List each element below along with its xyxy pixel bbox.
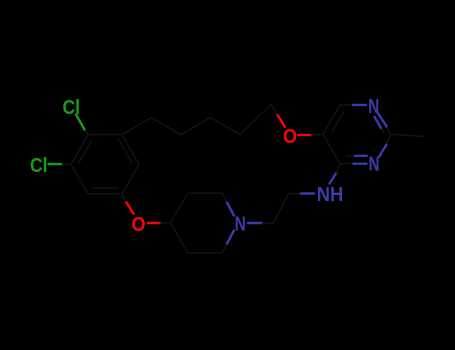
wire pyrimidine edge C2-N3 dark half xyxy=(386,134,391,145)
amine NH bond to CH2b (blue half) xyxy=(301,192,314,194)
svg-text:N: N xyxy=(235,214,246,236)
ether O1 bond to benzene F (red half) xyxy=(127,203,134,214)
wire chain bond P2-V2 xyxy=(211,118,241,135)
wire pyrimidine edge N1-C2 dark half xyxy=(387,126,392,134)
wire pyrimidine edge C4-C5 xyxy=(323,134,340,163)
ether O2 bond to chain P3 (red half) xyxy=(278,115,286,127)
chlorine Cl1 bond (dark half toward ring C) xyxy=(85,130,89,135)
amine N piperidine bond to C2' (blue half) xyxy=(227,203,234,216)
wire chain bond P1-V1 xyxy=(152,118,182,135)
chlorine Cl2 bond (green half at label) xyxy=(49,163,62,165)
wire piperidine N-C2' dark half xyxy=(222,193,227,202)
chlorine Cl2 bond (dark half toward ring D) xyxy=(61,163,71,165)
wire methyl bond C2-CH3 xyxy=(391,134,425,136)
pyrimidine C2-N3 bond (blue half) xyxy=(379,145,386,157)
piperidine ring carbon skeleton xyxy=(171,193,228,253)
wire pyrimidine inner double C5=C6 xyxy=(333,112,343,130)
svg-text:N: N xyxy=(368,96,379,118)
pyrimidine N3=C4 bond (blue half) xyxy=(354,162,367,164)
wire pyrimidine edge C6-N1 dark half xyxy=(340,104,353,106)
wire chain P3 to O2 dark half xyxy=(271,105,278,116)
pyrimidine N1 bond C6-N1 (blue half) xyxy=(353,104,366,106)
wire pyrimidine inner double N1=C2 dark half xyxy=(381,128,383,132)
chlorine Cl1 bond (green half at label) xyxy=(76,115,85,130)
wire piperidine edge C3'-C2' xyxy=(188,192,223,194)
wire piperidine edge C4'-C3' xyxy=(171,193,188,223)
ether O2 bond to pyrimidine C5 (red half) xyxy=(298,134,311,136)
wire benzene edge E-F xyxy=(88,193,122,195)
wire chain bond V2-P3 xyxy=(240,105,271,135)
wire benzene inner double bond A-B xyxy=(119,140,132,162)
wire piperidine edge C4'-C5' xyxy=(171,223,188,253)
ether O1 bond to piperidine C4' (red half) xyxy=(148,222,160,224)
svg-text:Cl: Cl xyxy=(30,155,48,177)
wire O2-C5 dark half xyxy=(311,133,323,136)
wire chain bond V1-P2 xyxy=(181,118,211,135)
svg-text:Cl: Cl xyxy=(62,97,80,119)
wire pyrimidine edge C5-C6 xyxy=(323,105,340,134)
wire benzene inner double bond E-F xyxy=(92,187,117,189)
wire benzene edge C-D xyxy=(71,135,88,165)
ether O1 bond to benzene F (dark half) xyxy=(122,194,127,203)
svg-text:NH: NH xyxy=(317,184,344,206)
amine N piperidine bond to C6' (blue half) xyxy=(227,231,234,244)
benzene ring (3,4-dichlorophenyl) carbon skeleton xyxy=(71,135,139,194)
wire pyrimidine inner double N3=C4 dark half xyxy=(347,155,356,157)
wire benzene inner double bond C-D xyxy=(79,141,92,163)
wire CH2b to NH dark half xyxy=(289,193,302,195)
wire benzene edge A-B xyxy=(122,135,139,165)
wire benzene edge D-E xyxy=(71,164,88,194)
wire benzene edge B-C xyxy=(88,134,122,136)
wire benzene edge F-A xyxy=(122,164,139,194)
svg-text:N: N xyxy=(369,154,380,176)
alkoxy chain from benzene B to O2 xyxy=(122,105,278,135)
svg-text:O: O xyxy=(131,214,145,236)
amine N piperidine bond to ethyl CH2a (blue half) xyxy=(248,222,262,224)
wire N-CH2a dark half xyxy=(262,222,274,224)
ether O1 bond to piperidine C4' (dark half) xyxy=(160,222,171,224)
wire piperidine N-C6' dark half xyxy=(222,244,227,253)
wire NH-C4 dark half xyxy=(336,164,340,173)
wire chain bond B-P1 xyxy=(122,118,152,135)
pyrimidine ring carbon skeleton xyxy=(323,105,425,164)
wire ethyl CH2a-CH2b xyxy=(274,194,289,224)
pyrimidine N1=C2 bond (blue half) xyxy=(378,113,387,126)
amine NH bond to pyrimidine C4 (blue half) xyxy=(330,173,337,184)
pyrimidine N1=C2 inner line (blue half) xyxy=(375,117,382,128)
pyrimidine N3=C4 inner line (blue half) xyxy=(355,155,367,157)
svg-text:O: O xyxy=(283,126,297,148)
wire pyrimidine edge N3-C4 dark half xyxy=(340,163,354,165)
wire piperidine edge C5'-C6' xyxy=(188,252,223,254)
